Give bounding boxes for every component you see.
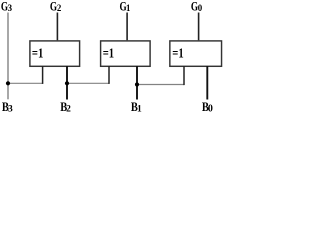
net label B3	[2, 100, 13, 115]
svg-text:0: 0	[208, 103, 213, 114]
wire G2 to U1 top	[56, 13, 58, 41]
wire U2 output to B1	[136, 66, 138, 100]
xor gate U1 (=1)	[30, 41, 80, 66]
svg-text:3: 3	[8, 104, 13, 114]
svg-text:1: 1	[137, 104, 142, 114]
svg-text:2: 2	[57, 3, 62, 13]
wire G0 to U3 top	[198, 13, 200, 41]
wire G3 vertical	[7, 13, 9, 100]
svg-text:=1: =1	[32, 45, 44, 60]
wire U1 output to B2	[66, 66, 68, 100]
node junction B3	[6, 81, 10, 85]
wire U3 input pin vertical	[183, 66, 185, 85]
net label G2	[50, 0, 62, 14]
xor gate U3 (=1)	[170, 41, 222, 66]
wire U1 input pin vertical	[42, 66, 44, 84]
wire U2 output branch to U3 input	[137, 84, 184, 86]
wire U1 output branch to U2 input	[67, 82, 109, 84]
svg-text:2: 2	[66, 104, 71, 114]
net label B1	[131, 100, 142, 115]
svg-text:0: 0	[198, 3, 203, 13]
xor gate U2 (=1)	[101, 41, 151, 66]
wire U2 input pin vertical	[108, 66, 110, 84]
svg-text:1: 1	[126, 3, 130, 13]
wire B3 branch horizontal to U1 input pin	[8, 82, 43, 84]
node junction B2	[65, 81, 69, 85]
svg-text:=1: =1	[103, 45, 115, 60]
net label G1	[120, 0, 131, 14]
net label G3	[1, 0, 13, 14]
svg-text:3: 3	[8, 3, 13, 13]
net label G0	[191, 0, 203, 14]
net label B0	[202, 100, 213, 115]
node junction B1	[135, 82, 139, 86]
net label B2	[60, 100, 71, 115]
wire G1 to U2 top	[126, 13, 128, 41]
svg-text:=1: =1	[172, 45, 184, 60]
wire U3 output to B0	[206, 66, 208, 100]
